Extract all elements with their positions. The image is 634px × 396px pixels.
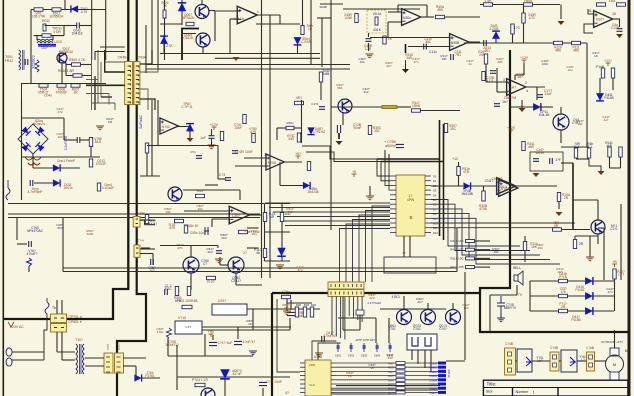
svg-text:U?0?: U?0? xyxy=(218,299,226,303)
wire row3b xyxy=(567,310,585,312)
svg-text:431K: 431K xyxy=(373,28,382,32)
wire d010 l xyxy=(33,167,53,169)
svg-text:4711: 4711 xyxy=(487,79,494,83)
svg-text:220K: 220K xyxy=(86,232,93,236)
svg-text:2K: 2K xyxy=(348,374,352,378)
svg-text:C.?P 11: C.?P 11 xyxy=(181,105,192,109)
svg-text:1N4-4B: 1N4-4B xyxy=(539,113,550,117)
fuse F001 xyxy=(6,180,10,200)
connector CP3A row1 xyxy=(328,282,364,289)
resistor R011 xyxy=(43,24,46,31)
capacitor C10B xyxy=(490,71,496,74)
speaker BELL xyxy=(514,271,523,285)
wire reg top rail xyxy=(202,326,291,328)
svg-text:1b?: 1b? xyxy=(502,100,508,104)
svg-text:BELL: BELL xyxy=(513,266,521,270)
svg-text:4R?: 4R? xyxy=(296,96,302,100)
wire r310 stub xyxy=(405,44,407,53)
wire x270 mid xyxy=(269,100,271,200)
resistor R413 xyxy=(466,266,475,269)
svg-text:"R2C: "R2C xyxy=(164,287,172,291)
wire conn upper stub2 xyxy=(95,51,125,53)
svg-text:C?1? 4uF: C?1? 4uF xyxy=(218,341,233,345)
wire x168 dn xyxy=(167,338,169,356)
wire x262 upper xyxy=(261,0,263,100)
svg-text:C1?1: C1?1 xyxy=(311,102,319,106)
resistor R410 xyxy=(466,240,475,243)
wire n102 out xyxy=(611,18,620,20)
wire x152 xyxy=(151,100,153,176)
svg-text:470B: 470B xyxy=(479,207,486,211)
IC U301 right pin stubs xyxy=(425,175,431,177)
wire r14c top xyxy=(575,235,598,237)
wire q602 up xyxy=(427,303,429,310)
svg-text:1 0?: 1 0? xyxy=(185,325,191,329)
svg-text:104: 104 xyxy=(197,207,202,211)
wire y190 f xyxy=(183,189,240,191)
svg-text:CN604: CN604 xyxy=(429,379,437,382)
wire x177 dn xyxy=(176,345,178,390)
svg-text:3: 3 xyxy=(503,78,505,82)
connector CNA-mid pins xyxy=(136,248,139,253)
wire r114 dn xyxy=(524,251,526,262)
connector CN4A-mid xyxy=(133,216,140,227)
resistor P203 xyxy=(613,269,616,279)
svg-text:N?0C: N?0C xyxy=(162,125,171,129)
wire k bottom1 xyxy=(331,393,396,395)
op-amp N14A xyxy=(499,180,518,197)
svg-text:56K: 56K xyxy=(337,86,342,90)
connector CN9B pins xyxy=(508,352,512,356)
diode D604 xyxy=(134,374,141,381)
wire conn row 3 xyxy=(559,360,561,362)
svg-text:C603: C603 xyxy=(361,354,368,358)
resistor V058 xyxy=(89,138,92,147)
svg-text:R011: R011 xyxy=(42,19,50,23)
svg-text:CLK: CLK xyxy=(309,383,315,387)
svg-text:CN607: CN607 xyxy=(429,392,437,395)
diode D417 xyxy=(585,292,593,300)
svg-text:D8: D8 xyxy=(433,212,437,216)
bridge diode 1 xyxy=(21,126,30,135)
resistor R103 xyxy=(484,54,487,64)
wire res quad bottom xyxy=(576,158,589,160)
wire n102 in2 xyxy=(584,24,593,33)
resistor R303 xyxy=(444,124,447,133)
svg-text:SuP/zAC: SuP/zAC xyxy=(139,115,143,129)
svg-text:4R6: 4R6 xyxy=(573,49,579,53)
svg-text:30C: 30C xyxy=(450,127,457,131)
capacitor C015 xyxy=(30,180,33,186)
resistor R610 zigzag xyxy=(167,328,172,338)
wire cn4a r2 xyxy=(145,224,156,226)
power +12V D2 xyxy=(606,63,611,66)
wire cna r1 xyxy=(140,248,155,250)
wire pin right long 2 xyxy=(431,228,560,230)
capacitor C60B xyxy=(287,312,295,315)
capacitor C105 xyxy=(484,40,487,46)
resistor R107 xyxy=(511,24,514,34)
wire res top rail xyxy=(287,302,312,304)
svg-text:P116B: P116B xyxy=(571,318,580,322)
svg-text:2R: 2R xyxy=(561,305,566,309)
diode D418 xyxy=(585,307,593,315)
wire gnd h3 xyxy=(589,159,601,171)
wire c613 dn xyxy=(262,388,264,396)
bus wires left of U301 xyxy=(265,202,390,204)
wire x287 dn xyxy=(286,299,288,311)
svg-text:2?: 2? xyxy=(402,251,406,255)
svg-text:11: 11 xyxy=(588,9,592,13)
wire r107 dn xyxy=(512,34,514,43)
svg-text:2R: 2R xyxy=(579,242,584,246)
svg-text:100: 100 xyxy=(283,306,288,310)
wire rnet v1b xyxy=(264,222,266,249)
svg-text:D0: D0 xyxy=(433,175,437,179)
wire c611 up xyxy=(212,335,214,340)
resistor R40x xyxy=(286,126,294,129)
wire x620 dn xyxy=(620,157,622,168)
wire diode feed xyxy=(181,0,183,25)
svg-text:1K: 1K xyxy=(248,322,252,326)
wire box H xyxy=(530,152,563,171)
wire cp11 r xyxy=(540,106,553,108)
svg-text:4?0uF?: 4?0uF? xyxy=(27,252,38,256)
wire k v2 xyxy=(388,318,390,343)
svg-text:2K2: 2K2 xyxy=(221,236,227,240)
zener ZD1B xyxy=(492,31,500,39)
svg-text:470uF/6?: 470uF/6? xyxy=(323,334,337,338)
svg-text:+12V: +12V xyxy=(507,126,516,130)
svg-text:68n: 68n xyxy=(57,226,62,230)
svg-text:4K7: 4K7 xyxy=(417,300,423,304)
svg-text:CN1?: CN1? xyxy=(485,179,494,183)
svg-text:1N4118: 1N4118 xyxy=(72,32,83,36)
svg-text:1?uF/1?: 1?uF/1? xyxy=(243,340,256,344)
wire cn stub2 xyxy=(141,247,150,249)
svg-text:2.2uF/150: 2.2uF/150 xyxy=(64,136,68,151)
svg-text:C17R: C17R xyxy=(611,26,620,30)
regulator U610 box xyxy=(175,321,202,334)
wire x220 j xyxy=(219,257,221,265)
resistor R401 xyxy=(243,115,246,124)
wire x277 dn xyxy=(276,128,278,140)
svg-text:47K: 47K xyxy=(177,246,182,250)
svg-text:223: 223 xyxy=(369,296,374,300)
power +12V a xyxy=(522,60,527,63)
wire into pin r2 xyxy=(381,162,390,181)
wire drop to IC 2 xyxy=(318,343,341,360)
sheet left border xyxy=(3,0,5,396)
svg-text:1M: 1M xyxy=(108,120,113,124)
wire x270 low xyxy=(269,200,271,278)
wire n30a in xyxy=(397,5,399,12)
svg-text:10u: 10u xyxy=(567,68,572,72)
svg-text:OUTDOOR +4?V: OUTDOOR +4?V xyxy=(601,340,623,344)
connector CN601 pins xyxy=(106,356,121,358)
wire ds drop2 xyxy=(417,350,419,364)
fuse F601 xyxy=(45,298,49,318)
svg-text:FB08: FB08 xyxy=(524,0,532,3)
ground G1 xyxy=(366,196,374,200)
bridge diode 3 xyxy=(21,142,30,151)
varistor VD1A xyxy=(375,17,378,25)
svg-text:T10?: T10? xyxy=(75,338,83,342)
wire box right xyxy=(63,26,65,36)
wire r105 dn xyxy=(523,23,525,43)
inductor L010 xyxy=(37,39,53,43)
wire n101 in2 xyxy=(497,91,508,93)
wire long vertical x331 xyxy=(330,0,332,100)
svg-text:2R: 2R xyxy=(564,196,569,200)
svg-text:R63?: R63? xyxy=(388,375,394,378)
svg-text:L?R1HZ: L?R1HZ xyxy=(313,130,325,134)
bus staircase to CN3x xyxy=(372,206,390,282)
resistor R122 xyxy=(220,132,223,141)
svg-text:4?R: 4?R xyxy=(250,130,257,134)
wire cn4a r1 xyxy=(140,219,155,221)
svg-text:104: 104 xyxy=(359,60,364,64)
wire k bottom3 xyxy=(336,385,440,387)
IC U6A right pins xyxy=(331,362,336,364)
svg-text:1/7C: 1/7C xyxy=(529,16,536,20)
svg-text:685P/?V: 685P/?V xyxy=(504,306,517,310)
resistor R148 xyxy=(619,147,622,157)
svg-text:1?C: 1?C xyxy=(514,26,521,30)
connector CN7B pins xyxy=(553,355,557,359)
wire y176 xyxy=(140,175,160,177)
wire zd1b dn xyxy=(495,39,497,43)
wire k h3 xyxy=(446,360,465,362)
wire bottom rail I xyxy=(177,376,290,378)
wire n102 in1 xyxy=(588,9,593,14)
wire c60b up xyxy=(290,300,292,310)
svg-text:P114B: P114B xyxy=(604,96,613,100)
wire p1nb dn xyxy=(612,78,614,90)
wire x33 seg xyxy=(32,157,34,168)
ground top-center xyxy=(233,57,240,61)
svg-text:R300 4.7K: R300 4.7K xyxy=(69,58,86,62)
wire R410 right xyxy=(475,240,491,242)
op-amp N10C xyxy=(160,118,178,134)
wire n31a out xyxy=(514,185,557,187)
diode CP11 xyxy=(533,103,541,111)
wire q603 up xyxy=(452,303,454,310)
wire left col x21 xyxy=(21,100,23,200)
svg-text:104: 104 xyxy=(537,246,542,250)
svg-text:7R1: 7R1 xyxy=(455,53,461,57)
wire n102 outdrop xyxy=(619,19,621,27)
svg-text:P?1B: P?1B xyxy=(559,275,567,279)
wire y179 xyxy=(218,178,226,180)
wire vd1a drop xyxy=(368,33,370,37)
svg-text:VD1A: VD1A xyxy=(373,12,383,16)
wire y24 stub xyxy=(160,23,182,25)
svg-text:Z?2: Z?2 xyxy=(166,44,172,48)
wire rnet bot xyxy=(265,260,291,262)
svg-text:V?10: V?10 xyxy=(178,316,186,320)
capacitor C121 xyxy=(209,136,215,139)
resistor R14C xyxy=(573,240,576,249)
svg-text:a900nF: a900nF xyxy=(385,144,397,148)
svg-text:B: B xyxy=(409,215,412,220)
wire base q250 xyxy=(220,264,228,266)
svg-text:V?0?: V?0? xyxy=(117,343,121,350)
wire q141 top xyxy=(573,199,598,201)
svg-text:FR42: FR42 xyxy=(5,59,13,63)
wire q114 dn xyxy=(560,130,562,143)
svg-text:46R: 46R xyxy=(528,145,535,149)
wire long rail y53 xyxy=(160,53,320,55)
svg-text:B1R: B1R xyxy=(311,303,316,307)
transformer T001 xyxy=(19,50,21,70)
svg-text:472: 472 xyxy=(57,110,62,114)
wire rnet top xyxy=(265,203,291,205)
op-amp N31A xyxy=(497,178,516,195)
wire top rail D xyxy=(480,4,560,6)
resistor R411 xyxy=(466,248,475,251)
wire feed top 1 xyxy=(377,158,440,160)
svg-text:B1R: B1R xyxy=(304,303,309,307)
wire k v1 xyxy=(375,318,377,343)
wire d604 up xyxy=(135,366,137,378)
svg-text:D11: D11 xyxy=(433,226,438,230)
display DS601 digits xyxy=(412,337,431,346)
svg-text:1N414B: 1N414B xyxy=(461,192,473,196)
wire x573 main xyxy=(572,163,574,230)
svg-text:4.7nF/5nP: 4.7nF/5nP xyxy=(28,190,43,194)
resistor P11C xyxy=(263,249,266,258)
connector CP3 pins xyxy=(330,284,332,295)
wire R011b conn xyxy=(66,75,73,77)
wire bus y271 xyxy=(63,271,457,273)
svg-text:+5?: +5? xyxy=(295,152,301,156)
wire n30b in2 xyxy=(408,46,449,48)
wire rail y43 xyxy=(464,42,587,44)
resistor R50x xyxy=(207,276,216,279)
wire x270 upper xyxy=(269,15,271,100)
svg-text:B1R: B1R xyxy=(296,303,301,307)
wire bus y268 xyxy=(63,267,457,269)
wire x524 to opamp xyxy=(515,74,524,76)
ground C1 xyxy=(366,54,374,58)
wires U6A to R stack xyxy=(336,362,396,364)
wires CP3 drops xyxy=(331,297,333,309)
wire g rail xyxy=(331,106,382,108)
wire u601 out xyxy=(247,308,320,310)
wire x158 xyxy=(157,100,159,145)
wire n30c out xyxy=(248,214,262,216)
wire k bottom2 xyxy=(331,389,438,391)
capacitor C052 xyxy=(77,137,80,143)
wire right col up3 xyxy=(145,25,147,73)
wire conn upper stub1 xyxy=(100,46,125,48)
wire rail y24b xyxy=(256,23,300,25)
svg-text:R64?: R64? xyxy=(388,379,394,382)
wire opamp out xyxy=(255,14,280,16)
transistor Q602 xyxy=(421,310,436,325)
wire q550 dn xyxy=(190,273,192,290)
svg-text:C-R4R: C-R4R xyxy=(301,40,311,44)
op-amp N101 xyxy=(507,79,526,96)
wire stub into rail xyxy=(64,0,66,10)
svg-text:C?4B: C?4B xyxy=(505,342,513,346)
ground earth symbol xyxy=(25,157,41,165)
wire L010 right xyxy=(52,36,54,40)
wire d411 up xyxy=(599,78,601,93)
wire left side down xyxy=(277,299,300,372)
svg-text:R61?: R61? xyxy=(388,367,394,370)
wire plug out2 xyxy=(12,359,44,361)
capacitor C042 xyxy=(77,23,80,29)
control block boundary thick wire xyxy=(480,50,628,332)
svg-text:CP?01 a: CP?01 a xyxy=(68,315,81,319)
wire L010 left xyxy=(36,36,38,40)
IC U6A xyxy=(305,360,331,396)
resistor R613 xyxy=(310,307,313,317)
wire n10d in1 xyxy=(244,157,268,159)
diode D10A xyxy=(186,124,194,132)
resistor R141 xyxy=(522,142,525,151)
wire r114 up xyxy=(524,236,526,241)
svg-text:D12: D12 xyxy=(433,231,438,235)
wire x64 drop xyxy=(63,118,65,140)
wire box bottom xyxy=(34,35,64,37)
wire y18 stub xyxy=(317,17,331,19)
wire cap left xyxy=(64,25,77,27)
connector CN4B-CN3A body xyxy=(125,62,140,105)
bridge diode 4 xyxy=(35,142,44,151)
svg-text:CN600: CN600 xyxy=(429,363,437,366)
svg-text:41?uF: 41?uF xyxy=(232,372,241,376)
wire r40x r xyxy=(294,127,302,129)
wire r105 up xyxy=(523,5,525,14)
svg-text:+12V: +12V xyxy=(520,56,529,60)
connector CN4B pin marks xyxy=(128,66,131,67)
svg-text:C11x: C11x xyxy=(429,50,437,54)
transistor Q005 xyxy=(196,33,210,47)
svg-text:7: 7 xyxy=(496,182,498,186)
capacitor C310 xyxy=(424,44,427,50)
wire d10a dn xyxy=(189,131,191,138)
connector CN601a xyxy=(104,353,113,373)
op-amp N30B xyxy=(450,34,469,51)
svg-text:4700GF: 4700GF xyxy=(56,91,68,95)
resistor R012 xyxy=(42,34,51,37)
wire left vertical xyxy=(30,10,32,84)
connector CP601 pins xyxy=(54,318,64,328)
wire n30b out xyxy=(468,41,480,43)
svg-text:1MB: 1MB xyxy=(323,72,330,76)
capacitor C219 xyxy=(216,251,222,254)
svg-text:N10?: N10? xyxy=(596,18,604,22)
svg-text:N30B: N30B xyxy=(451,41,460,45)
connector CP601b xyxy=(51,324,67,333)
diode D011 xyxy=(53,179,60,186)
wire R411 right xyxy=(475,249,491,251)
resistor P604 xyxy=(195,383,205,386)
wire g rail2 xyxy=(397,106,411,108)
svg-text:22K: 22K xyxy=(497,60,502,64)
crystal XG01 xyxy=(356,310,364,315)
wire x322 up xyxy=(321,18,323,67)
wire x490 dn l xyxy=(489,295,491,332)
power +5V I xyxy=(209,334,214,337)
ground H2 xyxy=(533,173,540,177)
svg-text:1M3: 1M3 xyxy=(609,0,616,3)
wire vertical feed x106 xyxy=(105,0,107,60)
capacitor C05e xyxy=(204,227,209,235)
